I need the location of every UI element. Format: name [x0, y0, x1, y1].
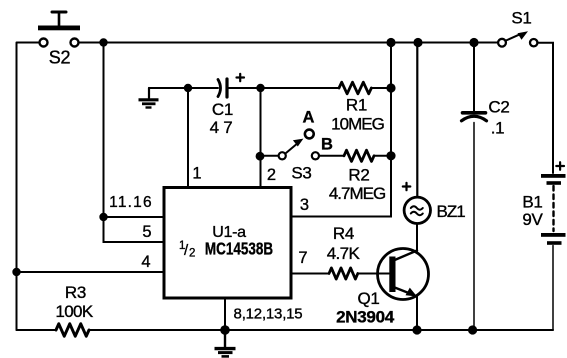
svg-text:R2: R2	[348, 166, 369, 185]
wire bottom rail left segment	[17, 329, 57, 331]
wire S2 branch vertical to pins 11,16 and 5	[104, 43, 165, 243]
junction C2 bottom	[468, 325, 477, 334]
junction IC ground	[220, 325, 230, 335]
pushbutton switch S2	[38, 12, 80, 47]
svg-text:5: 5	[142, 223, 151, 241]
junction S3 tap	[256, 152, 265, 161]
wire S1 to battery top	[538, 43, 554, 173]
junction emitter bottom	[412, 325, 421, 334]
buzzer BZ1	[403, 43, 431, 224]
battery B1	[541, 162, 566, 330]
IC U1-a	[164, 188, 291, 299]
junction pin 4 on left rail	[12, 268, 20, 276]
wire IC ground pin	[224, 298, 226, 330]
svg-text:4.7MEG: 4.7MEG	[329, 184, 385, 203]
resistor R1	[339, 82, 371, 94]
wire left vertical rail	[16, 43, 18, 331]
svg-text:S2: S2	[49, 48, 71, 68]
svg-text:2: 2	[267, 166, 276, 184]
wire Q1 collector to BZ1	[416, 224, 418, 251]
ground near C1	[139, 88, 159, 108]
svg-text:S1: S1	[511, 9, 531, 28]
junction top rail at x=391	[386, 38, 395, 47]
svg-text:2: 2	[189, 248, 195, 260]
wire pin 4	[17, 271, 165, 273]
junction top rail at x=474	[469, 38, 478, 47]
svg-text:B: B	[321, 136, 333, 154]
ground under IC	[215, 330, 236, 356]
svg-text:.1: .1	[491, 119, 505, 138]
svg-text:B1: B1	[522, 193, 542, 212]
wire right-mid vertical to pin 3	[291, 43, 391, 217]
svg-text:S3: S3	[291, 164, 311, 183]
wire bottom rail right segment	[89, 329, 553, 331]
label 1/2 MC14538B	[179, 240, 273, 260]
wire pin 1 vertical	[187, 88, 189, 187]
svg-text:4 7: 4 7	[210, 118, 233, 137]
svg-text:Q1: Q1	[357, 289, 379, 308]
transistor Q1	[378, 249, 429, 300]
svg-text:BZ1: BZ1	[437, 202, 466, 221]
wire ground to C1	[149, 87, 218, 89]
wire pin 7 to R4	[291, 273, 329, 275]
wire R4 to Q1 base	[358, 273, 389, 275]
svg-text:8,12,13,15: 8,12,13,15	[234, 306, 303, 323]
junction pin 11,16	[99, 213, 107, 221]
capacitor C1	[218, 74, 244, 97]
wire R1 right	[371, 87, 391, 89]
wire Q1 emitter to bottom rail	[416, 297, 418, 331]
svg-text:MC14538B: MC14538B	[205, 240, 273, 259]
resistor R2	[344, 150, 374, 161]
wire pin 2 vertical	[260, 88, 262, 187]
wire top rail left end to S2 left contact	[17, 42, 39, 44]
svg-text:C2: C2	[488, 98, 509, 117]
wire C1 to node 2	[229, 87, 340, 89]
junction R2 right	[386, 151, 395, 160]
svg-text:2N3904: 2N3904	[336, 308, 395, 327]
capacitor C2	[462, 43, 487, 331]
resistor R3	[56, 324, 89, 336]
svg-text:R1: R1	[346, 96, 367, 115]
svg-text:4.7K: 4.7K	[327, 244, 361, 263]
wire top rail from S2 to S1	[79, 42, 499, 44]
svg-text:4: 4	[141, 253, 150, 271]
svg-text:R3: R3	[65, 283, 86, 302]
svg-text:A: A	[303, 109, 315, 127]
switch S3	[264, 130, 319, 160]
svg-text:11.16: 11.16	[109, 194, 153, 211]
wire pin 11,16	[104, 216, 165, 218]
junction S2-right	[99, 38, 107, 46]
svg-text:9V: 9V	[522, 210, 543, 229]
svg-text:1: 1	[192, 165, 201, 183]
svg-text:10MEG: 10MEG	[331, 115, 384, 134]
svg-text:U1-a: U1-a	[212, 224, 246, 241]
junction top rail at x=418	[413, 38, 422, 47]
switch S1	[498, 31, 537, 46]
resistor R4	[329, 268, 358, 279]
wire R2 right	[374, 155, 391, 157]
junction C1 right / pin2	[256, 84, 264, 92]
junction pin 1 node	[184, 84, 192, 92]
wire B contact to R2	[319, 155, 344, 157]
svg-text:C1: C1	[212, 100, 233, 119]
svg-text:100K: 100K	[55, 302, 94, 321]
junction R1 right	[386, 83, 395, 92]
svg-text:R4: R4	[333, 224, 354, 243]
svg-text:3: 3	[300, 196, 309, 214]
svg-text:7: 7	[298, 249, 307, 267]
